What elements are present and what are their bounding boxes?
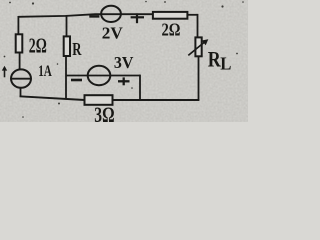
svg-text:3V: 3V [114,53,134,72]
wire top [18,14,197,17]
resistor 3Ohm [85,95,113,105]
svg-text:2Ω: 2Ω [29,33,47,57]
wire middle R branch [65,15,68,99]
polarity plus 2V [131,13,144,23]
svg-text:L: L [220,53,231,73]
label 1A [38,63,52,80]
label 2V [102,24,124,43]
scan specks [4,1,244,118]
current source I1 1A [11,69,31,87]
polarity minus 2V [89,15,99,18]
paper background [0,0,248,122]
voltage source 2V [101,6,121,22]
wire right branch [198,14,199,100]
label 2Ohm left [29,33,47,57]
svg-text:1A: 1A [38,63,52,80]
polarity plus 3V [118,77,130,85]
svg-text:2V: 2V [102,24,124,43]
svg-text:3Ω: 3Ω [94,102,114,122]
polarity minus 3V [71,79,82,82]
label R [72,39,82,59]
wire 3V branch [66,75,140,100]
resistor R [64,36,70,56]
label 3V [114,53,134,72]
resistor 2Ohm left [16,34,23,52]
wire left branch [18,16,20,97]
wire bottom [20,96,200,100]
label 2Ohm top [162,19,181,39]
resistor RL variable [188,37,208,56]
resistor 2Ohm top [153,12,188,19]
svg-text:2Ω: 2Ω [162,19,181,39]
arrow current direction [2,66,7,78]
svg-text:R: R [72,39,82,59]
svg-text:R: R [208,47,221,71]
label 3Ohm [94,102,114,127]
voltage source 3V [88,66,111,85]
label RL [208,47,232,73]
